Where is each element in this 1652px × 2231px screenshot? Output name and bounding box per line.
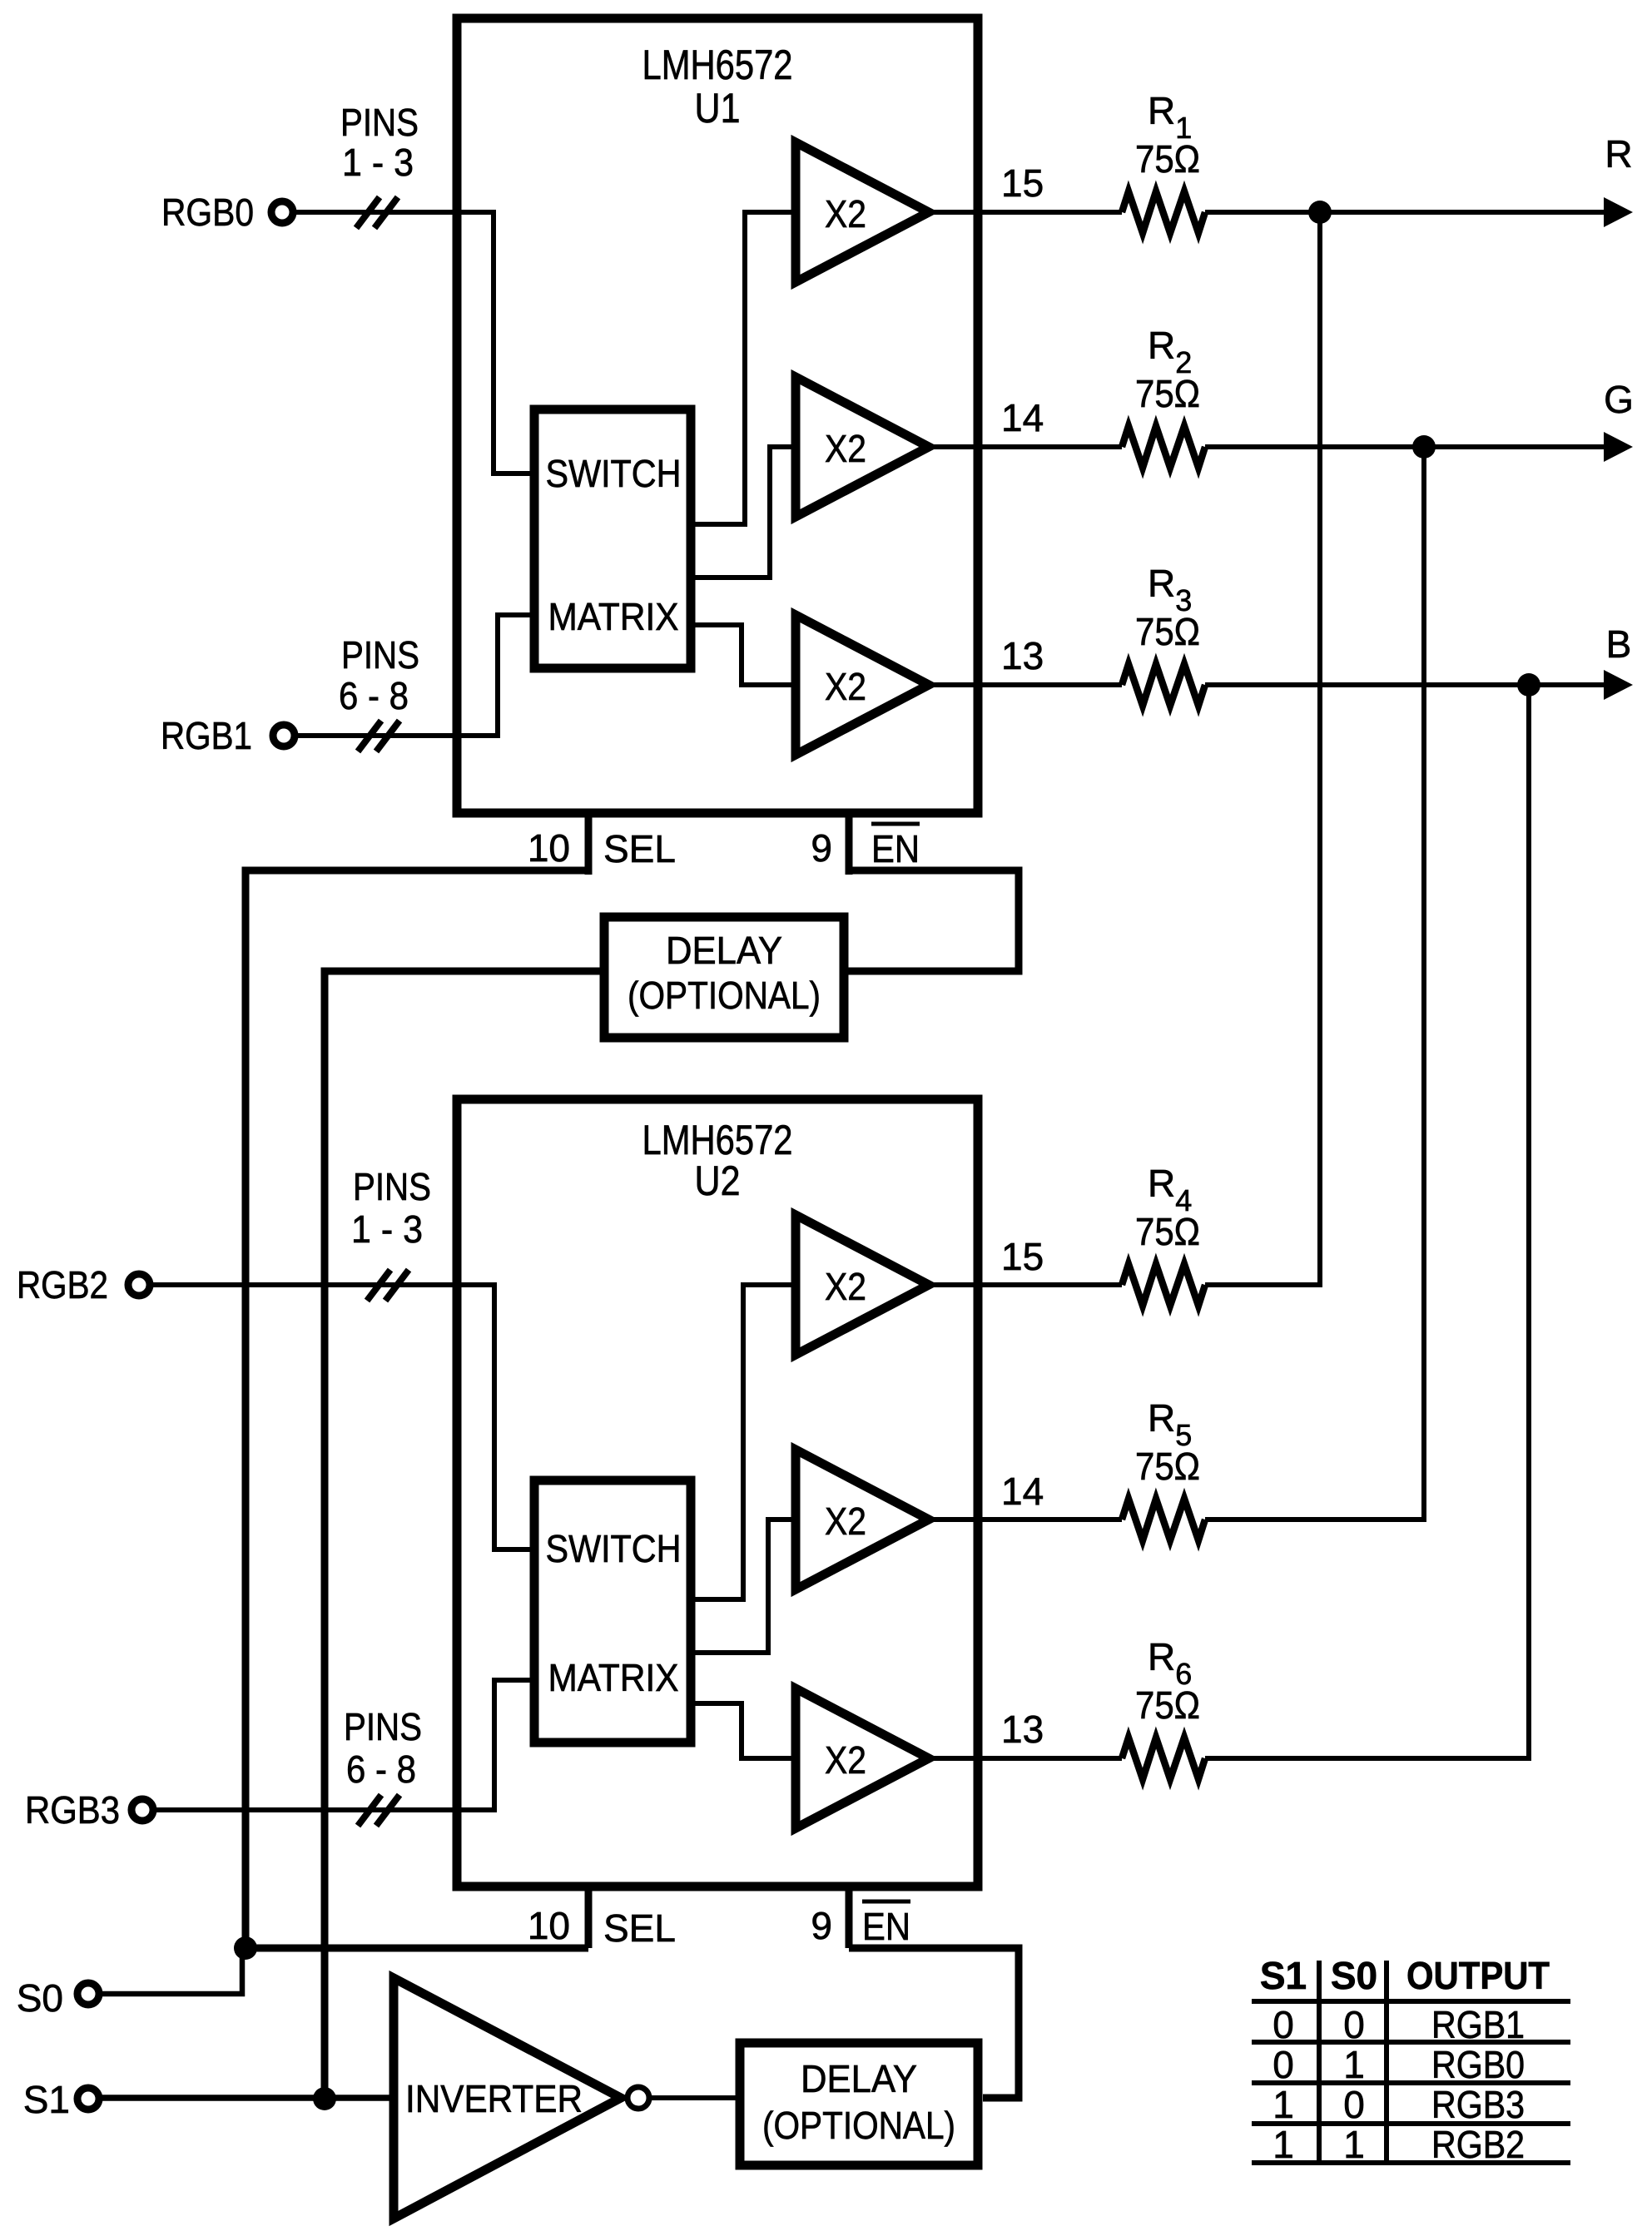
op-amp U1A X2 (796, 142, 929, 282)
terminal RGB3 (131, 1799, 153, 1821)
resistor R2 (1122, 426, 1205, 468)
svg-text:PINS: PINS (341, 633, 419, 677)
bus slash RGB3 pins 6-8 (358, 1795, 399, 1826)
svg-text:10: 10 (528, 826, 570, 870)
table row line 2 (1252, 2040, 1570, 2045)
resistor R6 (1122, 1738, 1205, 1779)
table row 1 0 RGB3 (1272, 2083, 1525, 2126)
wire S0 bus to U2 SEL (246, 1945, 588, 1952)
svg-text:X2: X2 (825, 192, 866, 235)
resistor R5 (1122, 1499, 1205, 1540)
svg-text:X2: X2 (825, 665, 866, 708)
pin 9 EN stub U1 (846, 813, 853, 875)
node S0 junction (234, 1936, 257, 1960)
op-amp U1C X2 (796, 615, 929, 755)
resistor R1 (1122, 191, 1205, 233)
svg-text:75Ω: 75Ω (1135, 372, 1200, 415)
switch matrix block U2 (534, 1480, 691, 1743)
svg-text:1: 1 (1343, 2123, 1365, 2166)
wire amp U1C output pin 13 (924, 682, 1122, 687)
svg-text:U2: U2 (695, 1158, 741, 1204)
wire RGB3 branch into matrix U2 (494, 1680, 534, 1812)
table row 0 0 RGB1 (1272, 2003, 1525, 2046)
terminal S0 (77, 1983, 99, 2005)
wire S1 to inverter (102, 2095, 391, 2101)
wire RGB2 to U2 (150, 1282, 494, 1287)
svg-text:1: 1 (1272, 2083, 1294, 2126)
wire R2 to G output (1205, 444, 1606, 449)
wire amp U2C output pin 13 (924, 1756, 1122, 1761)
svg-text:13: 13 (1001, 634, 1044, 677)
table row 1 1 RGB2 (1272, 2123, 1525, 2166)
svg-text:RGB0: RGB0 (1431, 2043, 1525, 2086)
svg-text:X2: X2 (825, 1738, 866, 1782)
switch matrix block U1 (534, 409, 691, 668)
label EN bar U2 (862, 1901, 910, 1948)
label EN bar U1 (871, 824, 920, 870)
terminal S1 (77, 2088, 99, 2110)
svg-text:S0: S0 (1331, 1954, 1377, 1997)
svg-text:15: 15 (1001, 161, 1044, 205)
svg-text:75Ω: 75Ω (1135, 1210, 1200, 1253)
table row 0 1 RGB0 (1272, 2043, 1525, 2086)
wire delay1 to S1 node (325, 971, 604, 2099)
wire R3 to B output (1205, 682, 1606, 687)
wire RGB1 branch into matrix U1 (498, 615, 534, 738)
svg-text:LMH6572: LMH6572 (642, 1117, 793, 1163)
wire switch U2 out to amp U2B (691, 1520, 791, 1653)
svg-text:(OPTIONAL): (OPTIONAL) (628, 974, 821, 1017)
wire amp U1A output pin 15 (924, 210, 1122, 215)
wire S0 to junction (102, 1952, 242, 1994)
svg-text:RGB2: RGB2 (1431, 2123, 1525, 2166)
svg-text:B: B (1606, 622, 1632, 666)
resistor R4 (1122, 1264, 1205, 1306)
svg-text:OUTPUT: OUTPUT (1406, 1954, 1550, 1997)
op-amp U2B X2 (796, 1450, 929, 1589)
arrow R output (1604, 197, 1633, 227)
pin 10 SEL stub U2 (585, 1886, 593, 1948)
bus slash RGB2 pins 1-3 (367, 1270, 409, 1301)
terminal RGB1 (273, 725, 295, 746)
svg-text:1 - 3: 1 - 3 (342, 141, 414, 184)
wire EN U1 to delay1 (844, 870, 1019, 971)
svg-text:X2: X2 (825, 1265, 866, 1308)
svg-text:14: 14 (1001, 1470, 1044, 1513)
svg-text:SWITCH: SWITCH (546, 1527, 682, 1570)
svg-text:SEL: SEL (603, 1906, 676, 1950)
svg-text:DELAY: DELAY (801, 2057, 917, 2100)
svg-text:75Ω: 75Ω (1135, 1683, 1200, 1727)
wire inverter to delay2 (649, 2095, 740, 2100)
wire RGB2 branch into switch U2 (494, 1282, 534, 1549)
svg-text:MATRIX: MATRIX (548, 1656, 679, 1699)
svg-text:DELAY: DELAY (666, 929, 782, 972)
svg-text:X2: X2 (825, 427, 866, 470)
svg-text:0: 0 (1343, 2003, 1365, 2046)
svg-text:75Ω: 75Ω (1135, 610, 1200, 653)
node B junction (1517, 673, 1540, 697)
table row line 4 (1252, 2121, 1570, 2126)
op-amp U1 IC box (457, 18, 978, 813)
delay block 2 (740, 2043, 978, 2165)
svg-text:(OPTIONAL): (OPTIONAL) (762, 2104, 955, 2147)
svg-text:S0: S0 (17, 1976, 63, 2020)
svg-text:15: 15 (1001, 1235, 1044, 1278)
node R junction (1308, 201, 1332, 224)
wire EN U2 to delay2 (849, 1948, 1019, 2098)
svg-text:RGB3: RGB3 (1431, 2083, 1525, 2126)
terminal RGB0 (271, 201, 293, 223)
svg-text:G: G (1604, 378, 1634, 421)
svg-text:0: 0 (1343, 2083, 1365, 2126)
svg-text:S1: S1 (1260, 1954, 1307, 1997)
wire amp U2A output pin 15 (924, 1282, 1122, 1287)
svg-text:9: 9 (811, 826, 832, 870)
svg-text:EN: EN (871, 827, 920, 870)
svg-text:X2: X2 (825, 1500, 866, 1543)
table column line 2 (1384, 1961, 1389, 2163)
op-amp U2C X2 (796, 1688, 929, 1828)
svg-text:PINS: PINS (353, 1165, 431, 1208)
svg-text:75Ω: 75Ω (1135, 137, 1200, 181)
svg-text:6 - 8: 6 - 8 (346, 1748, 416, 1791)
svg-text:PINS: PINS (340, 101, 419, 144)
wire R4 up to node R (1205, 212, 1320, 1285)
resistor R3 (1122, 664, 1205, 706)
svg-text:PINS: PINS (344, 1705, 422, 1748)
wire amp U1B output pin 14 (924, 444, 1122, 449)
op-amp U1B X2 (796, 377, 929, 517)
table row line 1 (1252, 1999, 1570, 2004)
svg-text:SWITCH: SWITCH (546, 452, 682, 495)
wire RGB1 to U1 (295, 733, 498, 738)
svg-text:1: 1 (1343, 2043, 1365, 2086)
wire SEL U1 to S0 node (246, 870, 588, 1948)
wire amp U2B output pin 14 (924, 1517, 1122, 1522)
wire R5 up to node G (1205, 447, 1424, 1520)
table row line 3 (1252, 2080, 1570, 2085)
arrow G output (1604, 432, 1633, 462)
svg-text:SEL: SEL (603, 827, 676, 870)
svg-text:R: R (1605, 132, 1632, 176)
svg-text:1 - 3: 1 - 3 (351, 1207, 423, 1251)
svg-text:RGB3: RGB3 (25, 1788, 120, 1832)
delay block 1 (604, 917, 844, 1038)
svg-text:MATRIX: MATRIX (548, 595, 679, 638)
wire switch U2 out to amp U2A (691, 1285, 791, 1599)
pin 10 SEL stub U1 (585, 813, 593, 875)
svg-text:RGB1: RGB1 (161, 714, 252, 757)
wire R1 to R output (1205, 210, 1606, 215)
inverter gate (394, 1978, 649, 2219)
wire matrix U1 out to amp U1C (691, 625, 791, 685)
pin 9 EN stub U2 (846, 1886, 853, 1948)
svg-text:LMH6572: LMH6572 (642, 42, 793, 88)
svg-text:RGB0: RGB0 (161, 191, 254, 234)
wire RGB0 to U1 (293, 210, 494, 215)
terminal RGB2 (128, 1274, 150, 1296)
svg-text:INVERTER: INVERTER (405, 2077, 583, 2120)
svg-text:S1: S1 (23, 2078, 70, 2121)
svg-text:10: 10 (528, 1904, 570, 1947)
svg-text:14: 14 (1001, 396, 1044, 439)
svg-text:0: 0 (1272, 2003, 1294, 2046)
svg-text:75Ω: 75Ω (1135, 1445, 1200, 1488)
svg-text:RGB1: RGB1 (1431, 2003, 1525, 2046)
node G junction (1412, 435, 1436, 459)
wire matrix U2 out to amp U2C (691, 1703, 791, 1758)
svg-text:U1: U1 (695, 85, 741, 131)
op-amp U2 IC box (457, 1099, 978, 1886)
svg-text:9: 9 (811, 1904, 832, 1947)
wire RGB3 to U2 (153, 1807, 494, 1812)
svg-text:RGB2: RGB2 (17, 1263, 108, 1306)
svg-text:6 - 8: 6 - 8 (339, 674, 409, 717)
svg-text:EN: EN (862, 1905, 910, 1948)
wire switch U1 out to amp U1B (691, 447, 791, 578)
arrow B output (1604, 670, 1633, 700)
table column line 1 (1317, 1961, 1322, 2163)
svg-text:0: 0 (1272, 2043, 1294, 2086)
bus slash RGB0 pins 1-3 (356, 197, 398, 228)
table row line 5 (1252, 2160, 1570, 2165)
svg-text:1: 1 (1272, 2123, 1294, 2166)
wire R6 up to node B (1205, 685, 1529, 1758)
wire RGB0 branch into switch U1 (494, 210, 534, 473)
node S1 junction (313, 2087, 336, 2110)
op-amp U2A X2 (796, 1215, 929, 1355)
svg-text:13: 13 (1001, 1708, 1044, 1751)
wire switch U1 out to amp U1A (691, 212, 791, 524)
bus slash RGB1 pins 6-8 (358, 721, 399, 751)
